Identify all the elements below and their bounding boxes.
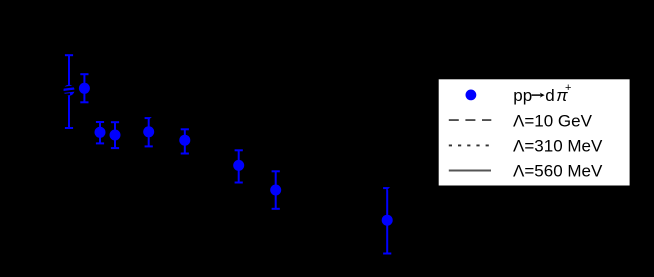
curve notch on P9 top cap xyxy=(389,186,394,191)
legend dotted line sample xyxy=(449,144,489,146)
error bar P5 xyxy=(145,118,153,146)
dashed curve crossing P1 xyxy=(63,86,76,95)
svg-text:Λ=560 MeV: Λ=560 MeV xyxy=(513,162,603,181)
data point P4 xyxy=(110,130,121,141)
error bar P4 xyxy=(111,122,119,148)
svg-text:d: d xyxy=(545,86,554,105)
svg-text:Λ=10 GeV: Λ=10 GeV xyxy=(513,111,593,130)
data point P3 xyxy=(95,127,106,138)
data point P1 xyxy=(64,85,75,96)
legend dashed line sample xyxy=(449,119,492,121)
error bar P7 xyxy=(235,150,243,182)
error bar P3 xyxy=(96,122,104,143)
error bar P9 xyxy=(383,188,391,253)
svg-text:pp: pp xyxy=(513,86,532,105)
error bar P6 xyxy=(181,129,189,153)
curve notch on P5 top cap xyxy=(151,116,155,119)
legend marker pp->dpi+ xyxy=(466,90,477,101)
data point P2 xyxy=(79,83,90,94)
error bar P1 xyxy=(65,55,73,128)
svg-text:+: + xyxy=(565,82,571,94)
data point P5 xyxy=(143,126,154,137)
svg-text:Λ=310 MeV: Λ=310 MeV xyxy=(513,137,603,156)
data point P6 xyxy=(179,135,190,146)
data point P8 xyxy=(270,185,281,196)
data point P7 xyxy=(233,160,244,171)
legend arrow glyph xyxy=(532,94,543,96)
error bar P8 xyxy=(272,171,280,209)
legend box xyxy=(439,79,630,185)
legend solid line sample xyxy=(449,170,491,172)
data point P9 xyxy=(382,215,393,226)
error bar P2 xyxy=(80,74,88,102)
